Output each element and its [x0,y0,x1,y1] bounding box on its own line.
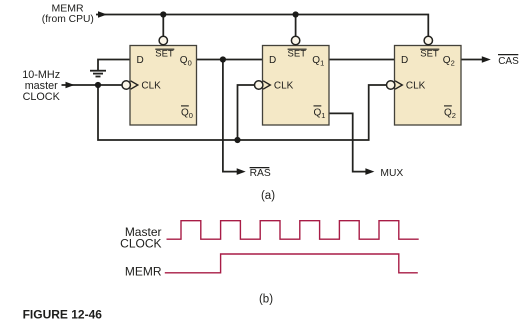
svg-text:1: 1 [320,59,324,68]
svg-text:2: 2 [452,111,456,120]
svg-text:Q: Q [312,55,320,66]
svg-text:MEMR: MEMR [125,264,162,278]
svg-text:1: 1 [321,111,325,120]
svg-text:CAS: CAS [498,56,519,67]
svg-text:0: 0 [189,111,193,120]
svg-text:Q: Q [180,55,188,66]
svg-text:D: D [401,55,408,66]
svg-text:(b): (b) [259,294,273,306]
svg-text:Q: Q [181,108,189,119]
svg-text:SET: SET [288,48,307,59]
svg-text:CLK: CLK [274,81,294,92]
svg-text:SET: SET [420,48,439,59]
svg-text:CLOCK: CLOCK [23,91,61,103]
svg-text:(a): (a) [261,190,275,202]
svg-text:RAS: RAS [250,168,271,179]
svg-text:CLOCK: CLOCK [120,237,161,251]
svg-text:CLK: CLK [141,81,161,92]
svg-text:CLK: CLK [406,81,426,92]
svg-text:MEMR: MEMR [51,3,83,15]
svg-text:FIGURE 12-46: FIGURE 12-46 [23,307,103,321]
svg-text:0: 0 [188,59,192,68]
svg-text:Q: Q [443,55,451,66]
svg-text:Q: Q [314,108,322,119]
svg-text:MUX: MUX [380,168,403,179]
svg-text:D: D [137,55,144,66]
svg-text:Q: Q [444,108,452,119]
svg-text:D: D [269,55,276,66]
svg-text:SET: SET [155,48,174,59]
svg-text:(from CPU): (from CPU) [42,14,94,25]
svg-text:2: 2 [451,59,455,68]
